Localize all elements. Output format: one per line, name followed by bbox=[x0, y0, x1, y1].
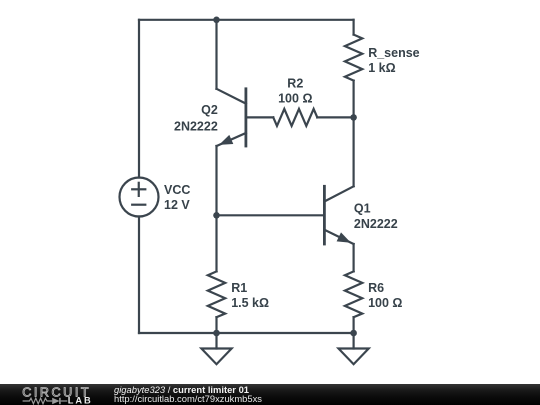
label VCC 12 V bbox=[164, 183, 190, 212]
label R2 100 Ohm bbox=[278, 76, 312, 105]
wire Q2 collector riser bbox=[215, 20, 217, 89]
node C (Q2 emitter / Q1 base / R1 junction) bbox=[213, 212, 220, 219]
footer credit text bbox=[114, 385, 249, 394]
svg-text:VCC: VCC bbox=[164, 183, 190, 197]
node A (R2/R_sense/Q1 collector junction) bbox=[350, 114, 357, 121]
label Q2 2N2222 bbox=[174, 103, 218, 134]
transistor Q2 bbox=[217, 89, 246, 146]
svg-text:100 Ω: 100 Ω bbox=[278, 91, 312, 105]
svg-text:R1: R1 bbox=[231, 281, 247, 295]
voltage source VCC bbox=[120, 178, 159, 217]
CircuitLab logo bbox=[0, 384, 110, 405]
wire Q1 emitter down to R6 bbox=[353, 244, 355, 271]
footer bar bbox=[0, 384, 540, 405]
wire Q2 emitter down to node bbox=[215, 146, 217, 215]
resistor R_sense bbox=[345, 20, 362, 118]
ground (left) bbox=[201, 333, 231, 364]
resistor R1 bbox=[208, 271, 225, 333]
svg-text:Q2: Q2 bbox=[201, 103, 218, 117]
label R1 1.5 kOhm bbox=[231, 281, 269, 310]
wire R2 to node bbox=[317, 116, 353, 118]
node B (top rail junction) bbox=[213, 17, 220, 24]
svg-text:2N2222: 2N2222 bbox=[354, 217, 398, 231]
resistor R6 bbox=[345, 271, 362, 333]
svg-text:1.5 kΩ: 1.5 kΩ bbox=[231, 296, 269, 310]
wire bottom rail bbox=[139, 332, 354, 334]
node D (R1 / bottom rail / ground junction) bbox=[213, 330, 220, 337]
svg-text:100 Ω: 100 Ω bbox=[368, 296, 402, 310]
svg-text:R_sense: R_sense bbox=[368, 46, 419, 60]
svg-text:R6: R6 bbox=[368, 281, 384, 295]
transistor Q1 bbox=[324, 186, 353, 244]
footer url bbox=[114, 394, 262, 403]
wire left column top (VCC to top rail) bbox=[138, 20, 140, 178]
svg-text:LAB: LAB bbox=[68, 396, 93, 405]
wire left column bottom (VCC to bottom rail) bbox=[138, 217, 140, 334]
svg-text:12 V: 12 V bbox=[164, 198, 190, 212]
wire Q1 base lead bbox=[217, 214, 325, 216]
ground (right) bbox=[339, 333, 369, 364]
label R_sense 1 kOhm bbox=[368, 46, 419, 75]
label Q1 2N2222 bbox=[354, 202, 398, 232]
svg-text:2N2222: 2N2222 bbox=[174, 120, 218, 134]
wire Q1 collector riser bbox=[353, 117, 355, 186]
wire top rail bbox=[139, 19, 354, 21]
node E (R6 / bottom rail / ground junction) bbox=[350, 330, 357, 337]
svg-text:Q1: Q1 bbox=[354, 202, 371, 216]
wire node C down to R1 bbox=[215, 215, 217, 271]
svg-text:1 kΩ: 1 kΩ bbox=[368, 61, 395, 75]
label R6 100 Ohm bbox=[368, 281, 402, 310]
wire Q2 base lead bbox=[246, 116, 273, 118]
resistor R2 bbox=[273, 109, 317, 126]
svg-text:R2: R2 bbox=[287, 76, 303, 90]
